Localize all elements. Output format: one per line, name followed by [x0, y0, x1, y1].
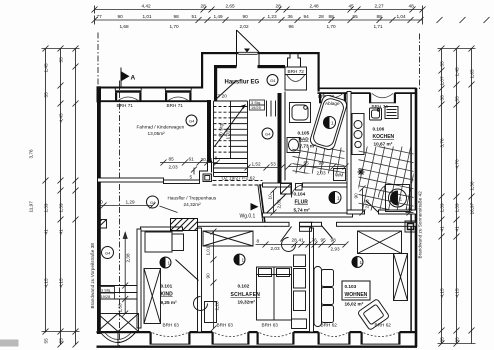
svg-text:28: 28 — [292, 238, 298, 243]
svg-text:1,01: 1,01 — [206, 246, 211, 256]
flag Wg 0.1 — [251, 203, 259, 211]
svg-text:19,32m²: 19,32m² — [238, 300, 256, 305]
wall corridor top right piece — [200, 162, 208, 181]
svg-text:8: 8 — [257, 239, 260, 244]
svg-text:4,15: 4,15 — [455, 288, 460, 298]
bottom window WOHNEN 2 BRH62.5 — [361, 332, 401, 344]
svg-text:2,03: 2,03 — [277, 199, 282, 209]
svg-text:8: 8 — [215, 156, 218, 161]
svg-text:4,15: 4,15 — [440, 288, 445, 298]
svg-text:1,23: 1,23 — [268, 14, 278, 19]
svg-text:55: 55 — [304, 161, 310, 166]
WOHNEN wardrobe X top — [358, 231, 402, 254]
Fahrrad room dim line — [160, 160, 220, 175]
svg-text:1,39: 1,39 — [440, 203, 445, 213]
svg-text:19/28: 19/28 — [101, 294, 111, 299]
outer wall top-left section — [97, 86, 210, 102]
svg-text:90: 90 — [206, 273, 211, 279]
svg-text:10 Stg.: 10 Stg. — [219, 123, 224, 138]
svg-text:55: 55 — [440, 61, 445, 67]
svg-text:1,49: 1,49 — [214, 14, 224, 19]
svg-text:0.106: 0.106 — [373, 127, 385, 132]
svg-text:17/29: 17/29 — [226, 127, 231, 139]
svg-text:UZ 19/27 l=2,62: UZ 19/27 l=2,62 — [222, 176, 256, 181]
svg-text:20,28: 20,28 — [201, 157, 213, 162]
KOCHEN door dim — [360, 186, 366, 216]
svg-text:G4: G4 — [105, 250, 111, 255]
svg-text:4,15: 4,15 — [44, 278, 49, 288]
svg-text:90: 90 — [354, 193, 359, 199]
svg-text:4,70: 4,70 — [455, 159, 460, 169]
svg-text:G4: G4 — [265, 131, 271, 136]
svg-text:48: 48 — [409, 4, 415, 9]
passage boxed labels — [100, 287, 115, 300]
svg-text:41: 41 — [455, 226, 460, 232]
shaft box right wall — [405, 221, 416, 232]
svg-text:3,76: 3,76 — [29, 149, 34, 159]
svg-text:1,07: 1,07 — [440, 76, 445, 86]
chimney block FLUR/SCHLAFEN — [300, 222, 312, 231]
svg-text:7,73 m²: 7,73 m² — [300, 144, 317, 149]
SCHLAFEN side boxes — [292, 255, 307, 329]
Hausflur EG room walls — [214, 65, 217, 101]
WOHNEN wardrobe X right — [394, 254, 408, 301]
svg-text:77: 77 — [97, 14, 103, 19]
svg-text:2,38: 2,38 — [126, 253, 131, 263]
outer wall top-right section — [318, 88, 417, 93]
KOCHEN bottom wall with door gap — [347, 210, 365, 214]
svg-text:WM: WM — [335, 173, 343, 178]
top dimension chain row 1 — [92, 6, 426, 14]
svg-text:55: 55 — [44, 338, 49, 344]
svg-text:28: 28 — [201, 4, 207, 9]
svg-text:BRH 63: BRH 63 — [262, 323, 279, 328]
WOHNEN armchair rotated — [357, 299, 389, 331]
bottom window KIND BRH63.5 — [150, 332, 191, 344]
svg-text:4,42: 4,42 — [142, 4, 152, 9]
FLUR slant wall + apartment door — [260, 185, 265, 226]
svg-text:9,25 m²: 9,25 m² — [161, 300, 178, 305]
svg-text:KOCHEN: KOCHEN — [373, 134, 395, 140]
circle marker corridor — [262, 128, 273, 139]
FLUR top wall / BAD bottom wall — [263, 183, 292, 187]
KIND right wall — [198, 228, 202, 332]
svg-text:55: 55 — [59, 338, 64, 344]
SCHLAFEN horizontal dim — [256, 242, 349, 248]
svg-text:38: 38 — [440, 95, 445, 101]
svg-text:88: 88 — [329, 14, 335, 19]
svg-text:85: 85 — [169, 157, 175, 162]
dim tick 18 right of kitchen door — [406, 210, 414, 216]
svg-text:2,03: 2,03 — [365, 199, 370, 209]
svg-text:Hausflur / Treppenhaus: Hausflur / Treppenhaus — [168, 196, 217, 201]
wall Fahrrad room right — [207, 100, 211, 163]
svg-text:G4: G4 — [270, 78, 276, 83]
svg-text:2,27: 2,27 — [375, 4, 385, 9]
svg-text:BRH 71: BRH 71 — [117, 103, 134, 108]
svg-text:Hausflur EG: Hausflur EG — [225, 80, 260, 86]
svg-text:16,97: 16,97 — [470, 202, 475, 214]
svg-text:0.105: 0.105 — [298, 131, 310, 136]
svg-text:88: 88 — [377, 14, 383, 19]
KIND wardrobe X — [144, 269, 161, 324]
svg-text:90: 90 — [118, 14, 124, 19]
svg-text:2,48: 2,48 — [310, 4, 320, 9]
svg-text:1,70: 1,70 — [170, 24, 180, 29]
svg-text:41: 41 — [299, 238, 305, 243]
SCHLAFEN inner dim vertical — [211, 229, 217, 332]
left dimension chains — [42, 46, 80, 348]
svg-text:1: 1 — [242, 258, 245, 263]
svg-text:1,45: 1,45 — [455, 67, 460, 77]
SCHLAFEN right wall — [310, 228, 314, 332]
svg-text:1,36: 1,36 — [470, 181, 475, 191]
circle marker Hausflur EG — [267, 75, 278, 86]
bathtub tag circle — [324, 117, 336, 129]
svg-text:45: 45 — [349, 4, 355, 9]
WOHNEN sofa — [314, 267, 334, 327]
svg-text:4,43: 4,43 — [59, 113, 64, 123]
svg-text:1,39: 1,39 — [455, 203, 460, 213]
svg-text:41: 41 — [440, 226, 445, 232]
svg-text:1: 1 — [337, 196, 340, 201]
FLUR bottom wall — [263, 213, 353, 217]
cellar stair fan below — [101, 332, 136, 347]
svg-text:BRH 63: BRH 63 — [217, 323, 234, 328]
boxed label 3 Stg 19/25 — [250, 100, 265, 110]
svg-text:19/25: 19/25 — [251, 105, 261, 110]
svg-text:Fahrrad / Kinderwagen: Fahrrad / Kinderwagen — [137, 125, 185, 130]
svg-text:4,15: 4,15 — [59, 278, 64, 288]
KIND top wall with door gap — [141, 227, 183, 231]
svg-text:11,97: 11,97 — [29, 201, 34, 213]
svg-text:1,70: 1,70 — [327, 24, 337, 29]
svg-text:2,02: 2,02 — [240, 24, 250, 29]
radiator symbol — [358, 169, 365, 176]
stair walk line — [215, 105, 246, 147]
BAD bathtub — [309, 94, 348, 151]
svg-text:1,52: 1,52 — [252, 162, 262, 167]
BAD dim line — [286, 164, 349, 170]
svg-text:55: 55 — [44, 92, 49, 98]
outer wall left — [97, 88, 101, 335]
svg-text:1,39: 1,39 — [44, 203, 49, 213]
svg-text:FLUR: FLUR — [295, 200, 309, 206]
svg-text:BAD: BAD — [299, 137, 310, 142]
KOCHEN radiator lines — [385, 107, 398, 119]
corridor small dim — [100, 203, 178, 213]
window BRH68.5 (BAD) top-right — [319, 93, 346, 103]
svg-text:Ablage: Ablage — [325, 101, 340, 106]
svg-text:BRH 71: BRH 71 — [167, 103, 184, 108]
property line left (Brandwand) — [97, 33, 99, 88]
door swing Hausflur — [215, 81, 237, 101]
svg-text:51: 51 — [192, 14, 198, 19]
svg-text:2,26: 2,26 — [215, 301, 220, 311]
svg-text:2,03: 2,03 — [317, 171, 327, 176]
svg-text:16,02 m²: 16,02 m² — [345, 302, 364, 307]
svg-text:1,01: 1,01 — [143, 14, 153, 19]
svg-text:90: 90 — [243, 14, 249, 19]
KOCHEN door leaf — [366, 201, 379, 213]
svg-text:0.102: 0.102 — [238, 284, 250, 289]
svg-text:61: 61 — [189, 157, 195, 162]
wall Fahrrad room bottom — [98, 178, 164, 182]
svg-text:5,74 m²: 5,74 m² — [294, 208, 311, 213]
svg-text:1,04: 1,04 — [397, 14, 407, 19]
svg-text:2,93: 2,93 — [331, 247, 341, 252]
svg-text:96: 96 — [289, 24, 295, 29]
svg-text:1: 1 — [400, 197, 403, 202]
bottom window WOHNEN 1 BRH62 — [318, 332, 351, 344]
svg-text:10: 10 — [98, 200, 104, 205]
shaft box corridor corner — [203, 174, 212, 182]
svg-text:1: 1 — [168, 261, 171, 266]
window W2 BRH71 top-left — [165, 88, 192, 102]
entrance door triangle — [237, 30, 260, 67]
svg-text:Wg.0.1: Wg.0.1 — [240, 214, 256, 220]
KIND chair + table — [194, 297, 217, 323]
svg-text:24,32m²: 24,32m² — [184, 202, 202, 207]
small diag box left wall — [98, 220, 107, 229]
WOHNEN top wall with door gap — [312, 222, 322, 226]
top dimension chain row 2 — [92, 6, 494, 25]
SCHLAFEN door leaf — [281, 227, 292, 242]
svg-text:3 Stg.: 3 Stg. — [101, 287, 111, 292]
svg-text:98: 98 — [331, 238, 337, 243]
fridge — [379, 185, 410, 212]
svg-text:13,05m²: 13,05m² — [148, 131, 166, 136]
WM box — [334, 169, 346, 181]
KOCHEN cooker — [352, 114, 364, 155]
svg-text:1,71: 1,71 — [374, 24, 384, 29]
svg-text:55: 55 — [455, 96, 460, 102]
SCHLAFEN bed — [257, 267, 292, 320]
KIND bed — [145, 232, 184, 252]
svg-text:SCHLAFEN: SCHLAFEN — [231, 292, 261, 298]
svg-text:94: 94 — [304, 14, 310, 19]
svg-text:1,65: 1,65 — [470, 69, 475, 79]
svg-text:41: 41 — [44, 229, 49, 235]
stairs upper flight — [214, 101, 248, 177]
KIND door tag — [160, 257, 171, 268]
svg-text:1,29: 1,29 — [126, 200, 136, 205]
SCHLAFEN tag — [234, 254, 245, 265]
WOHNEN door leaf — [322, 226, 333, 239]
svg-text:Brandwand zu Sonnenstraße 42: Brandwand zu Sonnenstraße 42 — [418, 191, 423, 259]
svg-text:55: 55 — [440, 337, 445, 343]
chimney block at bay — [288, 54, 301, 68]
svg-text:98: 98 — [174, 14, 180, 19]
svg-text:95: 95 — [321, 238, 327, 243]
svg-text:1,45: 1,45 — [44, 63, 49, 73]
BAD washbasin — [287, 138, 300, 153]
WOHNEN label box — [342, 281, 370, 300]
circle marker Treppenhaus — [147, 196, 159, 208]
svg-text:WOHNEN: WOHNEN — [345, 292, 368, 298]
BAD tile hatch — [279, 133, 354, 188]
UZ beam dashed — [213, 181, 263, 186]
passage dim line — [122, 233, 128, 317]
passage steps 3 Stg — [101, 286, 138, 300]
svg-text:G4: G4 — [189, 118, 195, 123]
svg-text:1,30: 1,30 — [118, 303, 123, 313]
svg-text:0.104: 0.104 — [294, 192, 306, 197]
svg-text:2,65: 2,65 — [226, 4, 236, 9]
passage winder steps X — [98, 314, 139, 332]
svg-text:36: 36 — [288, 14, 294, 19]
svg-text:BRH 72: BRH 72 — [288, 69, 305, 74]
KOCHEN tile hatch — [341, 130, 428, 225]
property line right — [419, 34, 421, 90]
svg-text:76: 76 — [312, 238, 318, 243]
window BRH74 (KOCHEN) top-right — [369, 93, 396, 103]
svg-text:2,03: 2,03 — [271, 246, 281, 251]
svg-text:28: 28 — [319, 14, 325, 19]
window W1 BRH71 top-left — [115, 88, 142, 102]
svg-text:KIND: KIND — [161, 292, 174, 298]
outer wall right — [415, 88, 418, 347]
right dimension chains — [438, 46, 476, 347]
WOHNEN tag — [352, 257, 363, 268]
svg-text:95: 95 — [353, 14, 359, 19]
KIND left wall (passage right wall) — [137, 229, 141, 328]
svg-text:BRH 62: BRH 62 — [321, 323, 338, 328]
svg-text:2,03: 2,03 — [169, 165, 179, 170]
svg-text:10,67 m²: 10,67 m² — [374, 142, 393, 147]
SCHLAFEN chair right — [282, 238, 296, 252]
svg-text:5: 5 — [190, 175, 193, 180]
outer wall bottom — [97, 332, 418, 347]
svg-text:1: 1 — [331, 121, 334, 126]
svg-text:55: 55 — [59, 57, 64, 63]
corridor dim line — [245, 165, 285, 171]
svg-text:0.101: 0.101 — [161, 284, 173, 289]
FLUR tag circle — [329, 192, 341, 204]
svg-text:BRH 63: BRH 63 — [163, 323, 180, 328]
entrance bay walls — [201, 52, 320, 92]
svg-text:10: 10 — [268, 194, 273, 200]
hatched duct in corridor wall — [171, 219, 198, 231]
wall right of corridor / BAD left — [278, 93, 282, 185]
svg-text:A: A — [131, 74, 136, 81]
shaft boxes left of FLUR — [281, 184, 292, 195]
steps corridor 3 Stg — [267, 101, 276, 117]
bottom window SCHLAFEN 1 BRH63 — [212, 332, 250, 344]
section line A — [119, 81, 121, 347]
svg-text:3,76: 3,76 — [440, 138, 445, 148]
svg-text:28: 28 — [276, 4, 282, 9]
section flag A — [121, 68, 136, 87]
svg-text:0.103: 0.103 — [345, 284, 357, 289]
scan smudge bottom-left — [0, 340, 19, 347]
svg-text:41: 41 — [59, 229, 64, 235]
circle marker passage — [102, 247, 114, 259]
BAD door swing — [291, 185, 302, 198]
window BRH72 in bay (into Hausflur) — [285, 67, 307, 90]
KOCHEN sink unit — [370, 108, 382, 120]
bottom window SCHLAFEN 2 BRH63 — [257, 332, 295, 344]
BAD fixtures: shower — [290, 103, 311, 123]
svg-text:35: 35 — [455, 337, 460, 343]
svg-text:1,39: 1,39 — [59, 203, 64, 213]
KIND door leaf — [176, 260, 199, 281]
svg-text:53: 53 — [271, 162, 277, 167]
svg-text:90: 90 — [319, 161, 325, 166]
svg-text:1,68: 1,68 — [120, 24, 130, 29]
SCHLAFEN wardrobe X — [203, 231, 253, 246]
KOCHEN left wall — [347, 92, 351, 214]
circle marker Fahrrad — [186, 115, 197, 126]
svg-text:1: 1 — [360, 260, 363, 265]
svg-text:Brandwand zu Vorpeilstraße 38: Brandwand zu Vorpeilstraße 38 — [90, 243, 95, 309]
FLUR entry dim — [271, 188, 277, 216]
